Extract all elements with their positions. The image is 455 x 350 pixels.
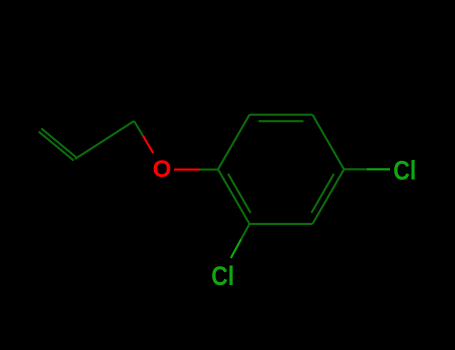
double bond inner line C1=C2 xyxy=(228,174,251,213)
benzene ring edge C5-C4 (top-right to right vertex) xyxy=(313,115,345,170)
benzene ring edge C3-C2 (bottom edge) xyxy=(250,223,313,225)
bond C4-Cl chlorine half (bright green) xyxy=(367,168,390,170)
bond C1-O carbon half (dark) xyxy=(200,169,218,171)
bond O-CH2 carbon half (dark) xyxy=(134,121,143,136)
benzene ring edge C4-C3 (right vertex to bottom-right) xyxy=(313,169,345,224)
bond CH2-CH (allyl chain) xyxy=(75,121,134,159)
bond C1-O oxygen half (red) xyxy=(174,169,200,171)
svg-text:Cl: Cl xyxy=(211,261,234,291)
benzene ring edge C2-C1 (bottom-left to left vertex) xyxy=(218,169,250,224)
svg-text:O: O xyxy=(153,156,172,183)
bond C2-Cl carbon half (dark) xyxy=(241,224,249,239)
bond C2-Cl chlorine half (bright green) xyxy=(231,239,241,258)
bond C4-Cl carbon half (dark) xyxy=(344,168,367,170)
double bond inner line C3=C4 xyxy=(311,174,334,213)
bond O-CH2 oxygen half (red) xyxy=(143,136,153,153)
double bond inner line C5=C6 xyxy=(259,120,304,122)
benzene ring edge C6-C5 (top edge) xyxy=(250,114,313,116)
double bond CH=CH2 line 1 xyxy=(41,128,76,157)
double bond CH=CH2 line 2 xyxy=(39,132,74,161)
benzene ring edge C1-C6 (left vertex to top-left) xyxy=(218,115,250,170)
svg-text:Cl: Cl xyxy=(393,156,416,186)
